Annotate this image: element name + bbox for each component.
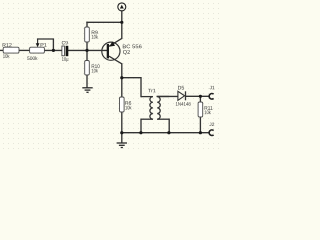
node junction [120,21,123,24]
resistor R6 [120,97,132,112]
node junction [199,131,202,134]
transistor Q2 [102,38,142,63]
wire [121,78,123,97]
wire [121,64,123,78]
wire [199,117,201,133]
capacitor C9 [62,41,69,62]
node junction [85,49,88,52]
wire [157,95,178,97]
resistor R12 [3,43,19,58]
wire [121,133,123,143]
wire [140,119,142,133]
wire [122,132,209,134]
wire [186,95,210,97]
power VCC [118,3,126,11]
ground [82,88,92,93]
wire [19,49,30,51]
node junction [120,76,123,79]
ground [117,143,127,148]
connector J2 [209,123,214,136]
node junction [167,131,170,134]
wire [122,78,141,97]
wire [68,49,107,51]
resistor R11 [198,102,212,117]
wire [44,49,62,51]
wire [121,11,123,22]
wire [86,22,88,27]
wire [86,75,88,87]
node junction [52,49,55,52]
potentiometer P1 [27,39,46,60]
resistor R10 [85,61,100,76]
wire [121,22,123,38]
connector J1 [209,86,214,99]
diode D5 [176,86,191,106]
transformer Tr1 [141,89,169,119]
wire [87,21,122,23]
node junction [199,95,202,98]
wire [0,49,4,51]
node junction [120,131,123,134]
node junction [139,131,142,134]
wire [168,119,170,133]
wire [121,112,123,133]
wire [38,39,54,50]
resistor R9 [85,27,98,42]
wire [86,42,88,50]
wire [199,96,201,102]
wire [86,50,88,60]
